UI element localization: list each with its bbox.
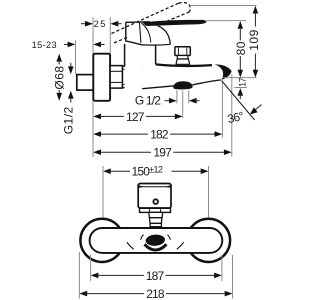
wire extension line 15-23 left [75, 41, 77, 75]
handle base [126, 21, 205, 46]
cartridge collar [140, 208, 171, 226]
spout lower rim crescent [145, 244, 167, 250]
escutcheon (side) [93, 54, 110, 101]
spout cone arcs [127, 235, 184, 250]
svg-text:182: 182 [150, 128, 169, 142]
body tube (front) [90, 228, 223, 253]
dimension 187 [91, 269, 222, 283]
wire ext 218 right [232, 255, 234, 299]
36 degree leader arrow [250, 105, 262, 115]
wire vertical ref from spout underside [221, 81, 223, 138]
wire escutcheon face reference line [109, 17, 111, 53]
svg-text:Ø68: Ø68 [52, 65, 66, 89]
handle lever (black) [143, 20, 206, 26]
dimension 80 [234, 21, 248, 78]
shower outlet bump (black) [173, 81, 193, 89]
svg-text:17: 17 [238, 77, 248, 86]
spout tip black crescent [215, 64, 232, 80]
escutcheon right (front) [187, 219, 230, 262]
svg-text:G 1/2: G 1/2 [135, 93, 161, 107]
escutcheon left (front) [80, 219, 123, 262]
hex union nut [110, 66, 122, 89]
wire ext 187 right [221, 255, 223, 281]
svg-text:187: 187 [146, 269, 165, 283]
svg-text:G1/2: G1/2 [62, 106, 76, 134]
dimension G1/2 left (nipple) [62, 63, 76, 135]
wire wall reference line [92, 17, 94, 157]
inlet pipe [123, 66, 143, 87]
dimension 109 [247, 6, 261, 78]
svg-text:197: 197 [153, 146, 172, 160]
wire ref line aerator plane [234, 87, 247, 89]
wire vertical ref from spout tip [231, 74, 233, 156]
dimension 150±12 [103, 164, 209, 178]
faucet body [125, 44, 156, 89]
wire ref line outlet level [223, 77, 257, 79]
wire ext line 150 right [208, 166, 210, 217]
dimension 127 [93, 110, 182, 124]
svg-text:25: 25 [94, 19, 107, 29]
dimension 182 [93, 128, 222, 142]
dimension 15-23 [32, 40, 105, 50]
svg-text:109: 109 [247, 29, 261, 51]
wire ref line lever top [206, 20, 246, 22]
dimension 25 [81, 19, 122, 29]
handle knob (front) [138, 184, 171, 209]
diverter knob [175, 47, 190, 65]
nipple G1/2 wall connection [77, 75, 94, 91]
wire ext line 150 left [102, 166, 104, 217]
dimension 17 [238, 77, 248, 99]
dimension 218 [79, 287, 232, 300]
wire ext 218 left [78, 252, 80, 299]
spout [142, 64, 231, 89]
dimension G1/2 bottom label [135, 93, 200, 107]
svg-text:127: 127 [126, 110, 145, 124]
dashed raised handle [112, 3, 191, 44]
svg-text:80: 80 [234, 41, 248, 55]
wire outlet centerline [182, 90, 184, 118]
dimension 197 [93, 146, 232, 160]
spout opening (black ellipse) [145, 234, 165, 247]
svg-text:218: 218 [146, 287, 165, 300]
svg-text:15-23: 15-23 [32, 40, 57, 50]
wire ext 187 left [90, 255, 92, 282]
dimension Ø68 [52, 54, 66, 101]
wire outlet stub edges [176, 90, 178, 103]
wire ref line top (raised lever) [190, 5, 257, 7]
36 degree flow line [222, 81, 255, 120]
